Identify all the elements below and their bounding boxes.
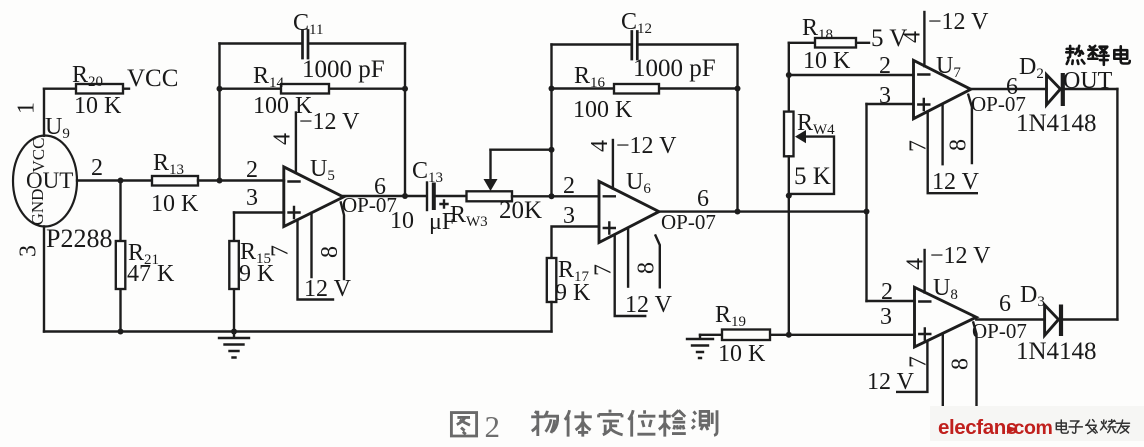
pin 8 number U7 (rotated) [946,139,972,151]
U7 part value OP-07 [971,92,1026,116]
node pin2 wire to R13 [77,179,152,181]
RW4 designator [797,110,835,138]
potentiometer RW4 [784,112,794,335]
wire U6 pin3 elbow to R17 [552,227,600,259]
junction U7 pin2 tap [786,72,792,78]
caption: tu 2 wu ti ding wei jian ce (figure 2: object positioning detection) [451,409,717,444]
svg-text:10 K: 10 K [151,191,199,217]
svg-text:−12 V: −12 V [930,243,991,269]
wire U6 output run to right [659,210,867,212]
svg-text:C13: C13 [412,158,443,186]
R16 designator [574,63,606,91]
R17 value 9 K [555,280,591,306]
R18 value 10 K [803,48,851,74]
RW3 wiper arrow [484,150,552,191]
U9 designator [45,114,70,142]
-12 V supply label U6 [616,133,677,159]
svg-text:P2288: P2288 [46,224,112,253]
C11 designator [293,10,323,38]
resistor R18 [789,38,869,48]
wire U8 output to D3 [976,318,1044,320]
wire D3 cathode to OUT corner [1063,318,1117,320]
svg-text:3: 3 [563,203,575,229]
svg-text:6: 6 [999,291,1011,317]
pin 10 number [390,208,414,234]
pin 6 number U5 [374,174,386,200]
R15 value 9 K [239,261,275,287]
resistor R13 [152,176,284,186]
junction U6 output / U7-U8 branch [864,209,870,215]
R21 value 47 K [127,261,175,287]
svg-text:elecfans: elecfans [938,416,1017,439]
pin 7 number U5 (rotated) [268,245,294,257]
op-amp U8 [915,287,977,347]
pin 8 number U5 (rotated) [317,246,343,258]
5 V supply label [871,25,907,52]
U8 designator [933,275,958,303]
U6 designator [626,169,651,197]
wire OUT right vertical [1116,89,1118,320]
svg-text:3: 3 [16,245,42,257]
U7 designator [936,53,961,81]
svg-text:2: 2 [91,155,103,181]
svg-text:2: 2 [485,409,501,444]
junction R16-left [549,86,555,92]
diode D2 [1047,73,1063,106]
junction feedback-left / U6 pin2 [549,193,555,199]
-12 V supply label U5 [299,109,360,135]
svg-text:C11: C11 [293,10,323,38]
svg-text:1000 pF: 1000 pF [633,55,716,82]
wire U5 pin7 stub [310,213,312,277]
wire U6 pin7 stub [627,228,629,287]
wire U7 pin3 [867,103,914,105]
wire U8 V+ lead with 12 V bar [897,341,927,392]
svg-text:8: 8 [948,358,974,370]
wire U5 pin4 supply [295,113,297,173]
P2288 value label [46,224,112,253]
svg-text:2: 2 [881,279,893,305]
pin 2 number U8 [881,279,893,305]
svg-text:1: 1 [14,102,40,114]
R17 designator [558,257,590,285]
U8 part value OP-07 [972,319,1027,343]
R19 designator [715,302,746,330]
-12 V supply label U8 [930,243,991,269]
resistor R20 [44,84,129,94]
-12 V supply label U7 [928,9,989,35]
sensor pin VCC label [29,138,48,173]
R21 designator [128,240,159,268]
pin 4 number U5 (rotated) [270,133,296,145]
pin 2 number U5 [246,157,258,183]
svg-text:47 K: 47 K [127,261,175,287]
svg-text:R16: R16 [574,63,606,91]
pin 3 number U6 [563,203,575,229]
ground bus wire [44,330,552,332]
capacitor C13 (electrolytic) [427,183,467,211]
svg-text:6: 6 [697,186,709,212]
svg-text:RW4: RW4 [797,110,835,138]
VCC net label [127,65,178,92]
svg-text:U9: U9 [45,114,70,142]
sensor U9 (P2288 pyroelectric) body [13,136,77,227]
pin 3 number U5 [246,185,258,211]
junction feedback-right / U6 output [735,209,741,215]
wire pin1 vertical [43,89,45,136]
svg-text:6: 6 [1006,74,1018,100]
svg-text:U8: U8 [933,275,958,303]
pin 4 number U7 (rotated) [900,31,926,43]
svg-text:1N4148: 1N4148 [1016,338,1097,365]
D2 value 1N4148 [1016,110,1097,137]
R13 value 10 K [151,191,199,217]
wire U7 pin8 stub [968,95,972,163]
C13 value uF [429,209,455,235]
resistor R21 [116,181,126,332]
12 V supply label U5 [304,276,352,302]
svg-text:U5: U5 [310,156,335,184]
svg-text:2: 2 [246,157,258,183]
RW3 designator [450,202,488,230]
svg-text:4: 4 [900,31,926,43]
pin 3 number U8 [880,304,892,330]
junction RW4 / R19 node [786,332,792,338]
R20 designator [72,62,103,90]
D3 designator [1020,282,1045,310]
resistor R16 [552,84,738,94]
svg-text:4: 4 [270,133,296,145]
wire R18 node down to RW4 [788,43,790,112]
elecfans.com logo text [938,416,1052,439]
12 V supply label U6 [625,292,673,318]
wire U6 V+ lead with 12 V bar [615,235,646,316]
svg-text:D3: D3 [1020,282,1045,310]
junction feedback-right / output [402,193,408,199]
svg-text:R14: R14 [253,63,285,91]
junction R14-left [217,86,223,92]
junction R16-right [735,86,741,92]
svg-text:5 K: 5 K [794,163,831,190]
svg-text:2: 2 [563,173,575,199]
R20 value 10 K [74,93,122,119]
wire U6 feedback right vertical [736,45,738,212]
wire U7 V+ lead with 12 V bar [928,112,977,194]
R14 value 100 K [253,93,313,119]
svg-text:OUT: OUT [1063,68,1113,94]
svg-text:D2: D2 [1019,54,1044,82]
wire U8 pin7 stub [942,334,944,416]
R16 value 100 K [573,97,633,123]
sensor pin OUT label [26,168,73,193]
resistor R15 [229,213,239,332]
junction R21-bus [118,329,124,335]
pin 4 number U6 (rotated) [587,140,613,152]
svg-text:U6: U6 [626,169,651,197]
elecfans CJK name (dian zi fa shao you, hand-drawn) [1056,420,1129,434]
svg-text:7: 7 [591,264,617,276]
wire U5 pin8 stub [341,203,344,280]
C13 designator [412,158,443,186]
svg-text:10 K: 10 K [718,341,766,367]
wire U6 feedback left vertical [550,45,552,197]
12 V supply label U8 [867,369,915,395]
D3 value 1N4148 [1016,338,1097,365]
pin 3 number U7 [879,83,891,109]
svg-text:100 K: 100 K [573,97,633,123]
capacitor C12 [552,32,738,60]
svg-text:1000 pF: 1000 pF [302,56,385,83]
wire U7 output to D2 [971,88,1047,90]
R15 designator [240,239,271,267]
svg-text:3: 3 [246,185,258,211]
pin 7 number U7 (rotated) [906,140,932,152]
RW3 value 20K [499,197,542,224]
svg-text:9 K: 9 K [555,280,591,306]
svg-text:VCC: VCC [127,65,178,92]
pin 1 number (rotated) [14,102,40,114]
pin 2 number [91,155,103,181]
wire U7 pin7 stub [941,104,943,164]
wire sensor pin3 down [43,227,45,332]
svg-text:12 V: 12 V [625,292,673,318]
resistor R14 [220,84,406,94]
C12 value 1000 pF [633,55,716,82]
wire U8 pin2 [867,300,915,302]
svg-text:12 V: 12 V [932,169,980,195]
12 V supply label U7 [932,169,980,195]
pin 4 number U8 (rotated) [903,258,929,270]
svg-text:10 K: 10 K [803,48,851,74]
D2 designator [1019,54,1044,82]
potentiometer RW3 [467,191,600,201]
pin 7 number U6 (rotated) [591,264,617,276]
svg-text:−12 V: −12 V [928,9,989,35]
junction RW4 bottom loop [786,193,792,199]
wire D2 cathode to OUT corner [1065,88,1118,90]
pin 2 number U7 [879,53,891,79]
pin 6 number U8 [999,291,1011,317]
sensor pin GND label [28,189,47,226]
svg-text:8: 8 [946,139,972,151]
ground symbol main [219,332,249,358]
op-amp U7 [914,60,971,118]
wire U8 pin8 stub [973,323,976,416]
wire U5 feedback right vertical [404,44,406,197]
svg-text:com: com [1014,417,1053,439]
svg-text:3: 3 [880,304,892,330]
svg-text:7: 7 [906,140,932,152]
svg-text:OP-07: OP-07 [661,210,716,234]
svg-text:R19: R19 [715,302,746,330]
elecfans watermark background band [930,406,1144,441]
C13 polarity plus [441,201,448,208]
op-amp U6 [599,181,659,242]
svg-text:12 V: 12 V [867,369,915,395]
wire U6 pin8 stub [656,236,660,288]
pin 2 number U6 [563,173,575,199]
wire U7 pin4 supply [923,12,925,66]
R19 value 10 K [718,341,766,367]
svg-text:8: 8 [317,246,343,258]
C12 designator [621,9,652,37]
svg-text:RW3: RW3 [450,202,488,230]
svg-text:10: 10 [390,208,414,234]
svg-text:4: 4 [587,140,613,152]
resistor R17 [547,258,557,332]
R13 designator [153,150,184,178]
junction feedback-left / pin2 line [217,178,223,184]
wire R19 node to U8 pin3 [789,334,915,336]
svg-text:8: 8 [634,262,660,274]
pin 7 number U8 (rotated) [906,356,932,368]
svg-text:R20: R20 [72,62,103,90]
diode D3 [1045,305,1061,337]
svg-text:10 K: 10 K [74,93,122,119]
junction at R21 tap [118,178,124,184]
pin 8 number U8 (rotated) [948,358,974,370]
svg-text:3: 3 [879,83,891,109]
RW4 wiper arrow [789,130,834,194]
resistor R19 [700,330,789,341]
svg-text:7: 7 [906,356,932,368]
svg-text:4: 4 [903,258,929,270]
U5 designator [310,156,335,184]
junction R14-right [402,86,408,92]
wire U5 feedback left vertical [218,44,220,181]
pin 6 number U6 [697,186,709,212]
R14 designator [253,63,285,91]
svg-text:1N4148: 1N4148 [1016,110,1097,137]
svg-text:C12: C12 [621,9,652,37]
C11 value 1000 pF [302,56,385,83]
pin 3 number (rotated) [16,245,42,257]
svg-text:9 K: 9 K [239,261,275,287]
svg-text:2: 2 [879,53,891,79]
pyroelectric net label (re shi dian, hand-drawn) [1066,46,1129,65]
R18 designator [802,15,833,43]
svg-text:R18: R18 [802,15,833,43]
svg-text:20K: 20K [499,197,542,224]
junction wiper to U6 input node [549,147,555,153]
pin 6 number U7 [1006,74,1018,100]
ground symbol at R19 [687,335,713,358]
capacitor C11 [220,31,406,59]
U6 part value OP-07 [661,210,716,234]
U5 part value OP-07 [342,193,397,217]
svg-text:U7: U7 [936,53,961,81]
wire U6 pin4 supply [612,140,614,189]
wire U5 V+ lead with 12 V bar [298,220,334,300]
wire U7pin3/U8pin2 vertical branch [865,104,867,301]
svg-text:7: 7 [268,245,294,257]
svg-text:−12 V: −12 V [616,133,677,159]
wire U8 pin4 supply [923,250,925,293]
svg-text:R13: R13 [153,150,184,178]
op-amp U5 [284,167,344,227]
RW4 value 5 K [794,163,831,190]
wire U5 output to C13 [343,195,426,197]
pin 8 number U6 (rotated) [634,262,660,274]
wire U5 pin3 to R15 [234,211,284,213]
wire U7 pin2 [789,74,914,76]
svg-text:GND: GND [28,189,47,226]
OUT net label [1063,68,1113,94]
junction R15-bus [231,329,237,335]
svg-text:−12 V: −12 V [299,109,360,135]
